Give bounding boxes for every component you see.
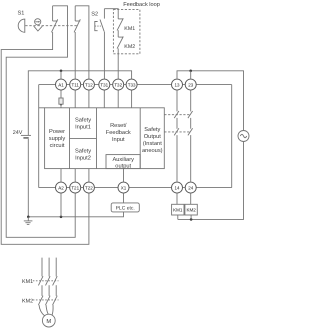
terminal T12 [83,79,94,90]
contactor coil KM1 [172,204,184,215]
node KM2 coil junction [190,218,193,221]
wire S2 top to feedback chain [104,9,118,19]
motor circuit phase L1 [41,258,43,277]
wire S2 bottom to T31 [103,32,105,79]
wire 23 right loop to 24 [231,85,233,188]
KM1 linkage (dashed) [33,280,59,282]
Reset/Feedback Input label [106,122,131,143]
wire A2 to ground line [60,193,62,217]
svg-text:KM2: KM2 [22,299,33,305]
terminal T33 [126,79,137,90]
node A1 tap junction [60,70,63,73]
auxiliary output box [106,155,140,169]
svg-text:23: 23 [188,82,194,87]
ground line [28,212,123,217]
wire S1.2 top loop to T12 [75,6,89,79]
terminal 24 [185,182,196,193]
svg-text:Input: Input [112,137,125,143]
wires between KM1 and KM2 contacts [42,285,56,296]
svg-text:KM2: KM2 [186,208,196,213]
reset button S2 actuator [95,22,101,31]
terminal T11 [70,79,81,90]
contact KM2 (NC feedback) [117,37,135,50]
wire A1 left to A2 left [38,85,40,188]
Safety Output label [142,126,163,154]
main unit box [45,108,165,169]
svg-text:circuit: circuit [50,142,65,149]
wire aux output to X1 [123,169,125,182]
fuse on A1 wire [59,90,63,108]
svg-text:KM1: KM1 [22,279,33,285]
wire bottom terminal rail [39,187,232,189]
wire between KM1 and KM2 contacts [117,30,119,37]
svg-text:KM1: KM1 [124,26,135,32]
wire box top-left extension [39,107,45,109]
wire X1 to PLC [123,193,125,203]
terminal A2 [56,182,67,193]
wire S1.1 top loop to T21 via inner loop [6,6,75,238]
wire S1.2 bottom to T11 [74,32,76,79]
svg-text:S1: S1 [18,10,25,16]
divider power supply section [69,108,71,169]
wire top terminal rail [39,84,232,86]
wire T32 to box [117,90,119,108]
Auxiliary output label [112,156,134,169]
svg-text:A2: A2 [58,185,64,190]
svg-text:T22: T22 [85,185,93,190]
svg-text:T33: T33 [128,82,136,87]
svg-text:14: 14 [174,185,180,190]
svg-text:T12: T12 [85,82,93,87]
motor circuit phase L2 [48,258,50,277]
AC source [238,131,249,142]
svg-text:T11: T11 [71,82,79,87]
svg-text:T32: T32 [114,82,122,87]
svg-text:Safety: Safety [144,126,160,133]
svg-text:Power: Power [49,129,65,135]
svg-text:KM2: KM2 [124,44,135,50]
svg-text:Reset/: Reset/ [110,122,127,129]
wire battery to ground line [27,139,29,217]
divider safety input section [96,108,98,169]
wire KM2 to T32 [117,48,119,79]
wire T33 to box [131,90,133,108]
svg-text:X1: X1 [121,185,127,190]
wire T12 to box [88,90,90,108]
Power supply circuit label [49,129,66,149]
direct opening action symbol [35,19,41,25]
wires KM2 to motor [39,305,53,316]
terminal X1 [118,182,129,193]
feedback loop dashed box [113,10,139,54]
contact S1.2 (NC) [74,6,80,33]
divider safety output section [139,108,141,169]
svg-text:Feedback: Feedback [106,129,131,136]
svg-text:A1: A1 [58,82,64,87]
output supply rail [177,71,244,131]
motor M [42,314,55,327]
KM2 linkage (dashed) [33,299,59,301]
terminal 13 [172,79,183,90]
node A2 junction [60,216,63,219]
wire KM2 coil to return [190,215,192,219]
svg-text:T21: T21 [71,185,79,190]
safety output contact 13-14 [174,90,179,182]
24V supply rail to A1 and T33 [28,71,131,136]
PLC box [111,203,139,212]
svg-text:KM1: KM1 [173,208,183,213]
terminal T21 [70,182,81,193]
Safety Input2 label [75,147,91,161]
terminal 14 [172,182,183,193]
ground [24,217,33,225]
terminal 23 [185,79,196,90]
output contact linkage 2 (dashed) [164,131,190,133]
svg-text:Input2: Input2 [75,155,91,161]
safety output contact 23-24 [188,90,193,182]
svg-text:PLC etc.: PLC etc. [116,205,135,211]
wire junction to 23 [190,71,192,79]
wire 14 to KM1 coil [176,193,178,204]
svg-text:13: 13 [174,82,180,87]
svg-text:T31: T31 [100,82,108,87]
terminal T32 [113,79,124,90]
svg-text:Output: Output [144,134,161,140]
battery symbol [21,135,31,138]
wire junction to A1 [60,71,62,79]
svg-text:Safety: Safety [75,147,91,154]
terminal A1 [56,79,67,90]
svg-text:24V: 24V [13,130,23,136]
wire AC source to KM coil return [178,142,244,220]
S1 mechanical link (dashed) [25,25,78,27]
wire box to T22 [88,169,90,182]
contact S2 (NO) [100,9,104,32]
wire T31 to box [103,90,105,108]
svg-text:Safety: Safety [75,116,91,123]
Safety Input1 label [75,116,91,130]
node 23 tap junction [189,70,192,73]
wire KM1 coil to return [177,215,179,219]
svg-text:(Instant: (Instant [143,140,162,147]
motor circuit phase L3 [55,258,57,277]
svg-text:Input1: Input1 [75,124,91,130]
node ground junction [27,216,30,219]
contact S1.1 (NC) [52,6,58,33]
KM1 main contacts [38,276,57,285]
svg-text:S2: S2 [91,12,98,18]
terminal T22 [83,182,94,193]
divider input1/input2 [70,137,97,139]
svg-text:Feedback loop: Feedback loop [123,1,160,8]
contactor coil KM2 [185,204,197,215]
wire box to T21 [74,169,76,182]
wire 24 to KM2 coil [190,193,192,204]
output contact linkage (dashed) [164,114,190,116]
svg-text:24: 24 [188,185,194,190]
KM2 main contacts [38,296,57,305]
wire S1.1 bottom to T22 via outer loop [1,32,89,244]
terminal T31 [99,79,110,90]
contact KM1 (NC feedback) [117,18,135,32]
svg-text:aneous): aneous) [142,147,163,154]
svg-text:M: M [46,319,51,325]
wire T11 to box [74,90,76,108]
e-stop actuator V symbol [34,26,43,31]
wire box to A2 [60,169,62,182]
svg-text:Auxiliary: Auxiliary [112,156,134,163]
svg-text:supply: supply [49,135,66,142]
emergency stop button S1 [18,19,25,32]
